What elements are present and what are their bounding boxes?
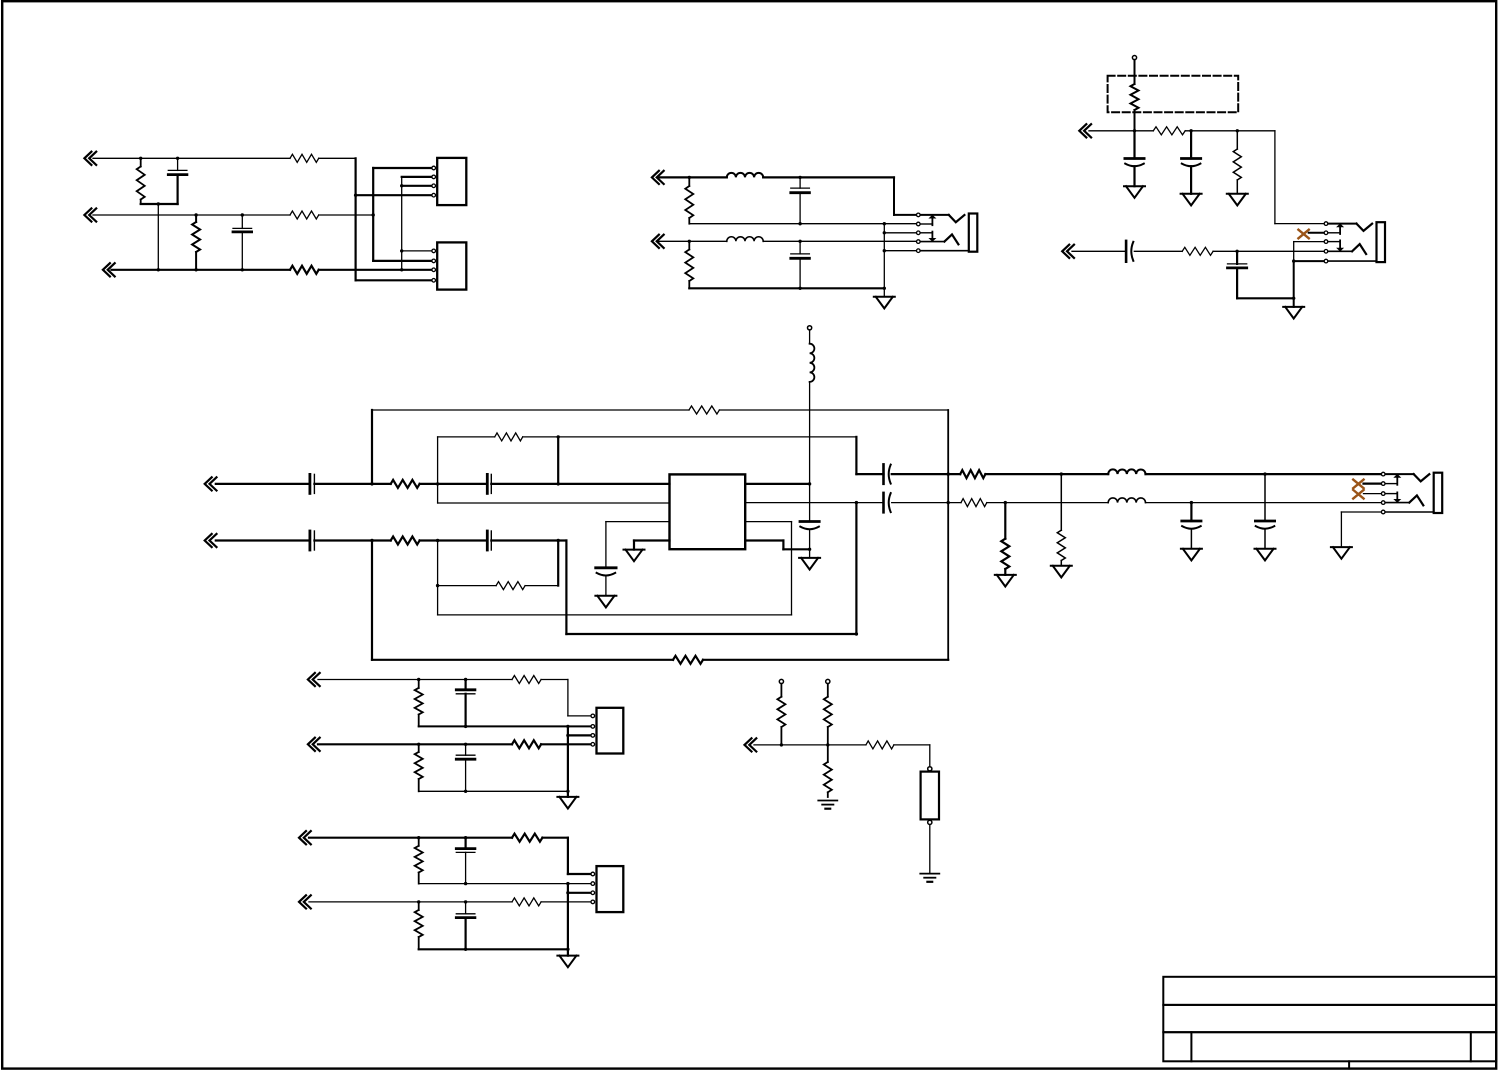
- wire netC to J1 pin2: [402, 176, 434, 178]
- node net2-R2: [194, 213, 197, 216]
- port INF: [1062, 245, 1074, 258]
- ground G7: [799, 549, 820, 569]
- node lineC-R7: [688, 240, 691, 243]
- JK1 jack tip contact: [920, 215, 964, 222]
- wire ch1 a: [856, 473, 883, 475]
- wire lineH a: [216, 539, 310, 541]
- wire nodeD down: [557, 541, 559, 586]
- wire ch1 b: [892, 473, 961, 475]
- resistor R20: [372, 656, 948, 664]
- resistor R28: [415, 902, 423, 949]
- JK2 jack sleeve wire: [1328, 260, 1377, 262]
- wire IC pin4 gnd: [634, 541, 670, 550]
- resistor R26: [415, 838, 423, 884]
- wire retB: [689, 223, 916, 225]
- JK3 jack pin2 stub: [1385, 483, 1397, 485]
- capacitor C23: [456, 902, 475, 949]
- node retS end: [566, 790, 569, 793]
- wire nodeA up: [437, 437, 439, 484]
- resistor R17 shunt: [1001, 503, 1009, 575]
- wire net1 left: [93, 157, 290, 159]
- JK3 jack ring switch arrow: [1385, 492, 1401, 502]
- connector J2: [437, 242, 466, 289]
- JK2 jack pins: [1324, 222, 1328, 263]
- JK1 jack tip switch arrow: [928, 215, 936, 226]
- title block bottom row divider: [1348, 1061, 1350, 1068]
- wire lineF c: [1213, 250, 1324, 252]
- node C17 bottom: [808, 548, 811, 551]
- node lineG-B: [557, 482, 560, 485]
- wire to JK1 pin5: [884, 250, 916, 252]
- wire JK2 pin5: [1294, 260, 1325, 262]
- capacitor C17 (polarized): [800, 484, 819, 549]
- wire ch1 down: [855, 437, 857, 474]
- ground G9: [1051, 566, 1072, 578]
- port INM: [745, 738, 757, 751]
- node retS-C: [464, 790, 467, 793]
- wire JK3 gnd: [1340, 512, 1342, 547]
- wire retW: [419, 948, 568, 950]
- port INP: [308, 673, 320, 686]
- wire fb1 vertical: [371, 410, 373, 484]
- node ch2-R: [1004, 501, 1007, 504]
- node net2-vert: [372, 213, 375, 216]
- JK1 jack sleeve body: [969, 214, 978, 252]
- wire netA to J1 pin4: [356, 194, 434, 196]
- node ch1-C13: [1263, 472, 1266, 475]
- wire fb right vertical: [947, 410, 949, 660]
- wire lineC b: [763, 240, 916, 242]
- title block row 3: [1163, 1032, 1496, 1061]
- no-connect X1: [1298, 230, 1308, 239]
- port IN3: [103, 263, 115, 276]
- terminal T4: [808, 326, 812, 330]
- JK2 jack tip switch arrow: [1336, 223, 1344, 234]
- resistor R30: [777, 684, 785, 745]
- capacitor C15 (series): [487, 531, 491, 550]
- resistor R31: [824, 684, 832, 745]
- fuse F1 terminal bottom: [928, 820, 932, 824]
- wire lineP b: [541, 680, 591, 716]
- node lineF: [1235, 250, 1238, 253]
- capacitor C14 (series): [310, 531, 315, 550]
- resistor R4: [290, 211, 319, 219]
- JK2 jack ring switch arrow: [1328, 240, 1344, 251]
- resistor R1: [137, 158, 145, 204]
- JK3 jack ring contact: [1385, 495, 1423, 505]
- no-connect X3: [1353, 490, 1363, 499]
- title block row 3 divider left: [1190, 1032, 1192, 1061]
- fuse F1: [921, 772, 939, 820]
- ground G14: [557, 956, 578, 968]
- wire J4 pin3: [568, 892, 591, 894]
- capacitor C9 (series): [310, 474, 315, 493]
- port INR: [308, 738, 320, 751]
- no-connect X2: [1353, 480, 1363, 489]
- capacitor C7 (series polarized): [1126, 241, 1133, 262]
- resistor R15: [960, 470, 985, 478]
- JK3 jack sleeve body: [1434, 473, 1443, 513]
- wire lineE a: [1089, 130, 1153, 132]
- wire lineA a: [658, 176, 727, 178]
- wire ch1 c: [985, 473, 1108, 475]
- connector J1 pins: [432, 166, 436, 197]
- ground G12: [1331, 547, 1352, 559]
- wire net1 right: [319, 157, 356, 159]
- connector J3: [597, 708, 624, 754]
- resistor R19: [438, 582, 559, 590]
- JK1 jack pins: [917, 213, 921, 252]
- wire netC to J2 pin1: [402, 250, 434, 252]
- node lineR-C: [464, 743, 467, 746]
- wire fuse gnd: [929, 825, 931, 874]
- JK1 jack sleeve wire: [920, 250, 969, 252]
- node lineE-3: [1236, 129, 1239, 132]
- resistor R33: [866, 741, 894, 749]
- resistor R24: [415, 744, 423, 791]
- port INC: [652, 235, 664, 248]
- node lineV-R: [417, 900, 420, 903]
- terminal T3: [826, 679, 830, 683]
- capacitor C6 (polarized): [1182, 131, 1201, 194]
- node lineT-R: [417, 836, 420, 839]
- wire lineT a: [309, 837, 512, 839]
- connector J3 pins: [591, 714, 595, 746]
- resistor R29: [512, 898, 541, 906]
- node lineH-fb: [370, 539, 373, 542]
- node ch1-R17: [1060, 472, 1063, 475]
- wire lineA down: [894, 177, 917, 215]
- node netC tee2: [400, 249, 403, 252]
- ground G13: [557, 797, 578, 809]
- wire R1-C1 bottom: [141, 203, 178, 205]
- wire netC to J1 pin3: [402, 185, 434, 187]
- wire lineF a: [1072, 250, 1126, 252]
- ground G5: [595, 596, 616, 608]
- node lineG-A: [436, 482, 439, 485]
- JK2 jack sleeve body: [1377, 222, 1386, 262]
- wire lineH down: [565, 541, 567, 635]
- wire lineH b: [314, 539, 390, 541]
- resistor R14: [438, 433, 559, 441]
- wire netB to J2 pin2: [373, 260, 434, 262]
- wire lineP a: [318, 679, 512, 681]
- JK2 jack tip contact: [1328, 224, 1372, 231]
- node JK2 pin5 tee: [1292, 259, 1295, 262]
- node lineE-2: [1189, 129, 1192, 132]
- resistor R22: [415, 680, 423, 727]
- ground G3: [1227, 194, 1248, 206]
- port INH: [205, 534, 217, 547]
- node lineA-C3: [798, 176, 801, 179]
- wire net3 right: [319, 269, 434, 271]
- ground G8: [995, 575, 1016, 587]
- node mid wire: [157, 202, 160, 205]
- node retQ-C: [464, 725, 467, 728]
- title block box 2: [1163, 1005, 1496, 1032]
- resistor R9: [1153, 127, 1185, 135]
- wire bias line: [754, 744, 866, 746]
- resistor R11: [1182, 247, 1213, 255]
- capacitor C10 (series): [487, 474, 491, 493]
- JK3 jack tip contact: [1385, 474, 1429, 481]
- resistor R3: [290, 154, 319, 162]
- wire nodeB down: [557, 437, 559, 484]
- node netA tee: [354, 194, 357, 197]
- port INE: [1079, 124, 1091, 137]
- ground G10: [1181, 549, 1202, 561]
- capacitor C4: [791, 241, 810, 288]
- JK1 jack ring contact: [920, 234, 958, 244]
- node net3-a: [157, 268, 160, 271]
- wire JK2 pin3 down: [1294, 242, 1325, 262]
- JK3 jack pins: [1381, 472, 1385, 513]
- node netC tee1: [400, 184, 403, 187]
- wire ch1 d: [1146, 473, 1382, 475]
- ground GA: [874, 297, 895, 309]
- wire JK3 pin3 stub: [1364, 493, 1382, 495]
- connector J2 pins: [432, 249, 436, 282]
- wire nodeC down: [437, 541, 439, 615]
- wire bias right: [894, 745, 930, 767]
- resistor R10: [1233, 131, 1241, 194]
- node ch2-nodeD: [855, 501, 858, 504]
- resistor R25: [512, 740, 541, 748]
- resistor R13: [372, 406, 948, 414]
- wire netC vertical: [401, 177, 403, 270]
- wire lineV b: [541, 901, 591, 903]
- terminal T2: [779, 679, 783, 683]
- capacitor C21: [456, 744, 475, 791]
- node retQ-gnd: [566, 725, 569, 728]
- resistor R8 (in dashed box): [1131, 60, 1139, 131]
- resistor R27: [512, 834, 542, 842]
- node gnd3 tee: [566, 734, 569, 737]
- wire fb3 vertical: [371, 541, 373, 660]
- ground E2 (earth): [920, 874, 939, 882]
- wire lineT b: [542, 838, 591, 874]
- wire ch2 b: [892, 502, 961, 504]
- capacitor C1: [168, 158, 187, 204]
- connector J4 pins: [591, 872, 595, 904]
- node lineP-R: [417, 678, 420, 681]
- capacitor C11 (series polarized): [884, 464, 891, 483]
- wire netA vertical: [355, 158, 357, 280]
- node lineP-C: [464, 678, 467, 681]
- wire gnd2 vertical: [1293, 261, 1295, 307]
- node lineH-D: [557, 539, 560, 542]
- JK1 jack pin2 stub: [920, 223, 932, 225]
- wire IC pwr: [745, 541, 809, 550]
- node ch1-fb: [947, 472, 950, 475]
- wire fb2 horizontal: [438, 614, 792, 616]
- wire lineH d: [491, 539, 566, 541]
- wire C8 return: [1237, 297, 1294, 299]
- node gndv tee2: [883, 249, 886, 252]
- wire down to net3: [157, 204, 159, 270]
- wire lineH c: [420, 539, 488, 541]
- ground G2: [1181, 194, 1202, 206]
- wire lineF b: [1134, 250, 1182, 252]
- wire to JK1 pin3: [884, 232, 916, 234]
- inductor L1: [810, 330, 815, 484]
- wire retQ: [419, 725, 591, 727]
- wire lineV a: [309, 901, 512, 903]
- IC U1: [670, 474, 746, 549]
- node retW end: [566, 948, 569, 951]
- node C1 top: [176, 157, 179, 160]
- wire net2 right: [319, 214, 374, 216]
- wire lineG b: [314, 483, 390, 485]
- node gnd2: [1292, 297, 1295, 300]
- wire net3 left: [112, 269, 291, 271]
- node gndv tee1: [883, 231, 886, 234]
- dashed option box: [1108, 76, 1239, 113]
- wire netA to J2 pin4: [356, 279, 434, 281]
- capacitor C12 (series polarized): [884, 493, 891, 512]
- inductor L4: [1108, 469, 1145, 474]
- wire lineA b: [763, 176, 894, 178]
- node bias-R31: [826, 743, 829, 746]
- capacitor C22: [456, 838, 475, 884]
- resistor R7: [685, 241, 693, 288]
- wire ch2 c: [987, 502, 1382, 504]
- wire nodeD up to ch2: [855, 503, 857, 634]
- JK2 jack ring contact: [1328, 244, 1366, 254]
- fuse F1 terminal top: [928, 767, 932, 771]
- wire JK3 pin2 stub: [1364, 483, 1382, 485]
- wire lineH bottom: [566, 633, 856, 635]
- wire IC out1: [745, 483, 809, 485]
- resistor R23: [512, 676, 541, 684]
- wire retD: [689, 287, 884, 289]
- resistor R6: [685, 177, 693, 223]
- node retD end: [883, 287, 886, 290]
- node retW-C: [464, 948, 467, 951]
- node lineH corner: [855, 632, 858, 635]
- wire lineG c: [420, 483, 488, 485]
- wire fb2 up: [791, 522, 793, 615]
- wire lineG a: [216, 483, 310, 485]
- title block row 3 divider right: [1470, 1032, 1472, 1061]
- ground G4: [1283, 307, 1304, 319]
- node lineH-C: [436, 539, 439, 542]
- wire JK2 pin2 stub: [1309, 232, 1325, 234]
- wire lineG d: [491, 483, 669, 485]
- ground G11: [1255, 549, 1276, 561]
- connector J1: [437, 158, 466, 205]
- node net3-vert: [400, 268, 403, 271]
- node retU-C: [464, 882, 467, 885]
- node retB-gnd: [883, 222, 886, 225]
- wire lineR b: [541, 743, 591, 745]
- node C2 bottom: [241, 268, 244, 271]
- resistor R5: [290, 266, 319, 274]
- capacitor C16 (polarized): [596, 522, 616, 596]
- node retB-C3: [798, 222, 801, 225]
- node ch2-C: [1190, 501, 1193, 504]
- wire fb2 to IC: [745, 521, 791, 523]
- node retD-C4: [798, 287, 801, 290]
- wire JK3 pin5 stub: [1341, 511, 1381, 513]
- wire nodeA to IC pin2: [438, 484, 670, 503]
- node lineT-C: [464, 836, 467, 839]
- wire ch2 a: [745, 502, 883, 504]
- wire lineE b: [1185, 130, 1275, 132]
- JK1 jack ring switch arrow: [920, 232, 936, 242]
- wire netB vertical: [372, 168, 374, 261]
- wire gnd4 vertical: [567, 884, 569, 956]
- node fb-ch2: [947, 501, 950, 504]
- node lineR-R: [417, 743, 420, 746]
- JK3 jack sleeve wire: [1385, 511, 1434, 513]
- wire J3 pin3: [568, 734, 591, 736]
- capacitor C18 (polarized): [1182, 503, 1201, 549]
- ground G1: [1124, 186, 1145, 198]
- wire gnd3 vertical: [567, 726, 569, 797]
- inductor L3: [727, 237, 763, 242]
- node lineE-1: [1133, 129, 1136, 132]
- inductor L5: [1108, 498, 1145, 503]
- resistor R2: [192, 215, 200, 270]
- resistor R18: [391, 537, 420, 545]
- capacitor C8: [1228, 251, 1247, 298]
- node lineV-C: [464, 900, 467, 903]
- ground G6: [624, 550, 645, 562]
- node out1-L: [808, 482, 811, 485]
- resistor R12: [391, 480, 420, 488]
- node lineA-R6: [688, 176, 691, 179]
- node lineG-fb: [370, 482, 373, 485]
- wire lineC a: [658, 240, 727, 242]
- JK2 jack pin2 stub: [1328, 232, 1340, 234]
- ground E1 (earth): [818, 801, 837, 809]
- wire lineE down: [1275, 131, 1324, 224]
- capacitor C20: [456, 680, 475, 727]
- resistor R32: [824, 745, 832, 797]
- wire netB to J1 pin1: [373, 167, 434, 169]
- node B top: [557, 435, 560, 438]
- terminal T1: [1132, 56, 1136, 60]
- node R2 bottom: [194, 268, 197, 271]
- inductor L2: [727, 173, 763, 178]
- resistor R16: [961, 499, 987, 507]
- connector J4: [597, 866, 624, 912]
- node bias-R30: [780, 743, 783, 746]
- wire retS: [419, 790, 568, 792]
- capacitor C2: [233, 215, 252, 270]
- port IN1: [84, 152, 96, 165]
- node lineC-C4: [798, 240, 801, 243]
- JK3 jack tip switch arrow: [1393, 474, 1401, 485]
- node C loop tee: [436, 584, 439, 587]
- node retU-gnd: [566, 882, 569, 885]
- port ING: [205, 477, 217, 490]
- capacitor C19 (polarized): [1255, 474, 1274, 549]
- wire lineR a: [318, 743, 512, 745]
- wire gnd vertical: [883, 224, 885, 297]
- port INV: [299, 895, 311, 908]
- wire IC pin3 wire: [606, 521, 670, 523]
- wire retU: [419, 883, 591, 885]
- node gnd4 tee: [566, 891, 569, 894]
- title block box 1: [1163, 977, 1496, 1005]
- wire net2 left: [93, 214, 290, 216]
- node net1-R1: [139, 157, 142, 160]
- capacitor C3: [791, 177, 810, 223]
- port INA: [652, 171, 664, 184]
- node C2 top: [241, 213, 244, 216]
